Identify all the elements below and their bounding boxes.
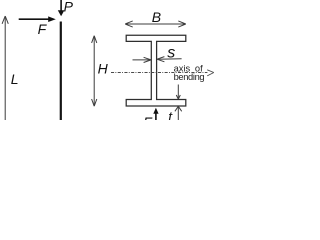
svg-text:F: F (143, 114, 153, 120)
svg-text:s: s (167, 45, 175, 62)
svg-text:F: F (38, 21, 48, 37)
svg-text:P: P (64, 0, 74, 14)
svg-text:bending: bending (174, 72, 205, 82)
svg-text:B: B (152, 9, 161, 25)
svg-text:L: L (11, 71, 19, 87)
svg-text:H: H (98, 60, 109, 76)
